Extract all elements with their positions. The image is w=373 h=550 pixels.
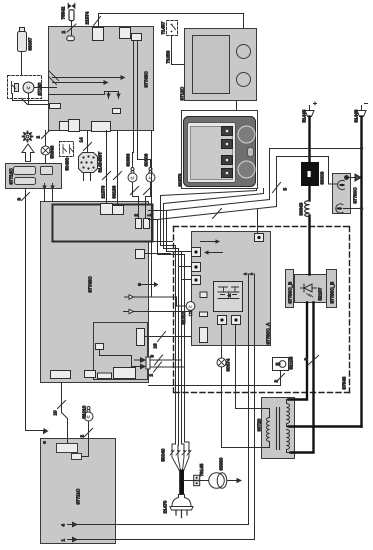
terminal feed wire 2 — [179, 266, 192, 268]
mains connector 50040 — [172, 442, 176, 450]
svg-text:50040: 50040 — [161, 448, 166, 461]
svg-text:97780C_A: 97780C_A — [266, 322, 271, 345]
svg-text:60686: 60686 — [126, 153, 131, 166]
branch to 78145 — [184, 480, 194, 482]
svg-text:60606: 60606 — [144, 153, 149, 166]
U1 internal wires — [53, 77, 121, 79]
wire pair U1 to fan motors — [133, 41, 135, 153]
panel down arrows — [44, 184, 46, 191]
svg-text:50460: 50460 — [65, 157, 70, 170]
IGBT output terminals — [218, 316, 227, 325]
switch 2 below 52105 — [149, 371, 281, 386]
motor wires to U2 with switches — [133, 182, 139, 219]
svg-text:M: M — [27, 86, 31, 91]
wires out of box G with switches — [150, 359, 182, 361]
relay sub-box in U2 — [53, 205, 153, 242]
inverter box 97780C_A — [192, 232, 271, 346]
terminal feed wire 3 — [182, 279, 192, 281]
svg-text:2: 2 — [274, 380, 279, 383]
svg-text:9712C: 9712C — [180, 86, 185, 100]
svg-text:93003: 93003 — [320, 171, 325, 184]
U1 top terminals — [93, 28, 104, 41]
wire to transformer primary — [236, 346, 262, 409]
motor M1 97130 (dashed) — [8, 76, 42, 99]
svg-text:1: 1 — [147, 214, 152, 217]
svg-text:71457: 71457 — [161, 21, 166, 34]
wire 96133 — [117, 131, 119, 206]
fan motor 60686 — [133, 153, 134, 167]
svg-text:2: 2 — [36, 136, 41, 139]
hollow arrow up — [22, 144, 34, 162]
svg-text:97716C: 97716C — [9, 168, 14, 185]
svg-text:97780C: 97780C — [353, 187, 358, 204]
svg-text:2: 2 — [61, 31, 66, 34]
svg-text:21574: 21574 — [85, 11, 90, 24]
svg-text:52107: 52107 — [318, 287, 323, 300]
connector 71457 — [167, 21, 178, 36]
wire lamp feed — [45, 131, 47, 147]
wire U2 to motor M with open arrow — [125, 297, 187, 306]
transformer windings — [267, 418, 270, 442]
svg-text:52105: 52105 — [289, 356, 294, 369]
svg-text:78145: 78145 — [199, 463, 204, 476]
terminal feed wire 1 — [176, 251, 192, 253]
wire U2 to inverter with open arrow — [124, 311, 192, 313]
svg-text:9: 9 — [150, 355, 155, 358]
inverter terminals — [192, 248, 201, 257]
main controller box U2 97748C (left middle) — [41, 202, 149, 383]
wire 93067 to motor — [21, 52, 23, 76]
svg-text:M: M — [87, 415, 91, 420]
switch 14 — [87, 131, 89, 153]
wire stub to U2 edge — [149, 210, 167, 212]
wire 10 to 97711C — [62, 383, 68, 444]
svg-text:96643: 96643 — [299, 202, 304, 215]
junction dot 97711C — [43, 441, 46, 444]
motor M 51010 (left) — [87, 407, 90, 410]
svg-text:93067: 93067 — [28, 37, 33, 50]
wire from relay sub-box edge — [153, 241, 173, 243]
fuse 76542 — [68, 4, 75, 9]
svg-text:1: 1 — [61, 539, 66, 542]
thermostat 52105 — [273, 358, 289, 371]
svg-text:97130: 97130 — [37, 82, 42, 95]
terminal rect on box G edge — [146, 357, 150, 369]
svg-text:76542: 76542 — [61, 6, 66, 19]
svg-text:9143456T: 9143456T — [98, 152, 103, 173]
thick mains line right — [360, 117, 362, 427]
U2 bottom small rect — [98, 373, 112, 379]
solenoid 93067 — [18, 32, 27, 52]
U2 terminal square w/ wire — [136, 250, 145, 259]
sub box G in U2 — [94, 323, 148, 380]
svg-text:51010: 51010 — [82, 405, 87, 418]
svg-text:M: M — [189, 304, 192, 309]
svg-text:97548: 97548 — [342, 376, 347, 389]
wire to inverter terminal — [257, 209, 259, 234]
small part 2 — [200, 312, 208, 317]
operator panel 97716C — [6, 164, 62, 189]
U2 bottom components — [51, 371, 71, 379]
wire top feed to 9712C — [99, 14, 244, 29]
display bundle wire 2 — [164, 189, 264, 442]
U1 internal relay blocks — [50, 104, 61, 109]
svg-text:50946: 50946 — [50, 145, 55, 158]
small part — [200, 292, 207, 298]
wire 9712C to display — [236, 101, 238, 111]
svg-text:21573: 21573 — [101, 185, 106, 198]
switch 9 and wire to 97711C — [26, 189, 39, 431]
HV transformer 63720 — [262, 398, 295, 459]
dashed enclosure 97548 — [174, 227, 350, 393]
switch 5 — [273, 183, 281, 193]
bent arrow into 97711C — [39, 431, 44, 434]
display unit 90973 — [182, 111, 258, 189]
wires motor to U1 — [34, 87, 57, 89]
wire 18 — [145, 336, 192, 338]
wire 21573 — [106, 131, 108, 204]
thick wires below diode box — [289, 303, 362, 453]
svg-text:2: 2 — [134, 214, 139, 217]
switch 2 — [42, 131, 50, 139]
display bundle wire 3 — [167, 149, 270, 442]
IGBT module — [214, 282, 243, 312]
aerial 91448 — [357, 111, 366, 117]
svg-text:10: 10 — [53, 410, 58, 416]
terminal rects fan wires — [136, 219, 142, 229]
svg-text:14: 14 — [79, 137, 84, 143]
display bundle wire 4 — [158, 157, 277, 442]
wire stub to U2 edge lower — [149, 219, 158, 221]
switch 7 — [213, 209, 222, 219]
lamp 50946 — [41, 146, 50, 155]
wires from IGBT terminals — [221, 325, 223, 346]
display bundle wire 1 — [161, 189, 257, 442]
svg-text:97780C_B: 97780C_B — [288, 282, 293, 304]
tall resistor — [200, 328, 208, 343]
gear icon — [23, 132, 33, 142]
svg-text:91448: 91448 — [354, 109, 359, 122]
svg-text:71056: 71056 — [166, 50, 171, 63]
switch 3 — [309, 356, 319, 365]
switch 21574 — [94, 17, 101, 26]
wire node A — [308, 155, 311, 158]
svg-text:2: 2 — [80, 435, 85, 438]
svg-text:97748C: 97748C — [88, 276, 93, 293]
svg-text:63720: 63720 — [257, 418, 262, 431]
magnetron filter box 97780C (right) — [333, 174, 362, 214]
fan motor 60606 — [138, 160, 151, 167]
relay 93003 — [302, 163, 319, 186]
svg-text:63390: 63390 — [219, 457, 224, 470]
mains plug 21470 — [172, 495, 191, 507]
control unit box 9712C (top-right) — [185, 29, 257, 101]
wire 71056 — [172, 36, 185, 65]
svg-text:97748C: 97748C — [144, 71, 149, 88]
choke 63390 — [209, 473, 225, 489]
svg-text:97711C: 97711C — [76, 488, 81, 504]
diode assembly 52107 with 97780C_B bars — [286, 270, 337, 308]
svg-text:90973: 90973 — [178, 173, 183, 186]
svg-text:3: 3 — [304, 358, 309, 361]
mains cable — [179, 470, 184, 499]
ECU box U1 97748C (top-left) — [49, 27, 154, 131]
inverter arrows — [201, 241, 216, 243]
svg-text:18: 18 — [153, 343, 158, 349]
wire 97780C to mains — [344, 208, 362, 210]
junction dot and arrow wire — [138, 283, 142, 287]
svg-text:60674: 60674 — [226, 358, 231, 371]
oven lamp 60674 — [221, 346, 223, 359]
svg-text:2: 2 — [149, 374, 154, 377]
dashed interlock 50460 — [60, 142, 74, 157]
switch 2 and wire into 97711C — [82, 421, 89, 457]
svg-text:21470: 21470 — [163, 500, 168, 513]
svg-text:9: 9 — [17, 198, 22, 201]
terminal block 21573 input — [101, 204, 113, 215]
wire U1 to motor M — [151, 131, 153, 298]
power board 97711C (bottom-left) — [41, 439, 116, 544]
coil 96643 — [305, 201, 310, 217]
svg-text:97780C_B: 97780C_B — [330, 282, 335, 304]
svg-text:M: M — [131, 176, 135, 181]
svg-text:96133: 96133 — [112, 185, 117, 198]
svg-text:5: 5 — [283, 188, 288, 191]
thick mains line left — [308, 117, 310, 275]
svg-text:51448: 51448 — [302, 109, 307, 122]
svg-text:51010: 51010 — [181, 311, 186, 324]
round connector 9143456T — [79, 153, 98, 173]
box G internals — [137, 329, 145, 346]
connector stub wires — [83, 173, 85, 181]
svg-text:4: 4 — [61, 524, 66, 527]
motor M 51010 (inverter) — [186, 302, 195, 311]
aerial 51448 — [305, 111, 314, 117]
